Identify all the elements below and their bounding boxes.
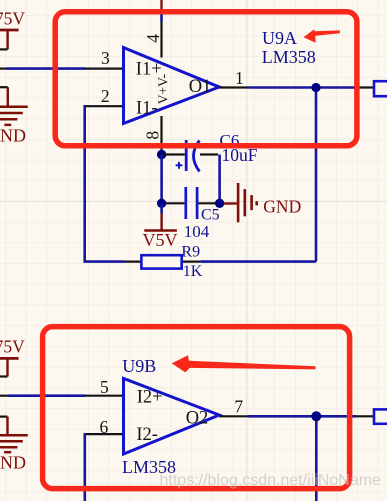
wire right vertical C6-C5 — [218, 155, 221, 204]
wire pin8 node down to C5 row — [160, 155, 163, 204]
wire to port (bottom right) — [357, 415, 375, 417]
red annotation rectangle U9B — [43, 327, 350, 489]
svg-text:I1-: I1- — [136, 99, 158, 119]
svg-text:V5V: V5V — [143, 230, 178, 250]
pin 8 wire below op-amp — [160, 116, 162, 154]
svg-text:2: 2 — [101, 86, 110, 106]
svg-text:I2-: I2- — [136, 425, 158, 445]
pin 4 wire above op-amp — [160, 0, 162, 58]
svg-text:U9A: U9A — [262, 28, 297, 48]
wire C5 right — [199, 202, 220, 204]
svg-text:O2: O2 — [186, 408, 209, 428]
svg-text:https://blog.csdn.net/iiiNoNam: https://blog.csdn.net/iiiNoName — [160, 472, 382, 489]
svg-text:V75V: V75V — [0, 337, 25, 357]
resistor R9 body — [141, 255, 181, 268]
svg-text:1K: 1K — [183, 263, 203, 280]
pin stub at bottom V75V — [0, 375, 8, 377]
svg-text:LM358: LM358 — [262, 47, 316, 67]
svg-text:C5: C5 — [201, 206, 220, 223]
capacitor C6 (polarized) — [176, 140, 200, 172]
wire input to pin 3 — [0, 67, 86, 69]
wire input to pin 5 — [0, 395, 85, 397]
pin 5 (black stub) — [85, 395, 124, 397]
svg-text:104: 104 — [184, 222, 210, 241]
ground GND (right of C5) — [224, 183, 301, 222]
svg-text:U9B: U9B — [122, 356, 156, 376]
svg-text:3: 3 — [101, 48, 110, 68]
resistor R9 wires — [125, 261, 142, 263]
svg-text:O1: O1 — [189, 77, 212, 97]
pin 3 (black stub) — [85, 67, 124, 69]
svg-text:5: 5 — [100, 377, 109, 397]
red annotation rectangle U9A — [55, 12, 357, 146]
pin 6 (black stub) — [85, 433, 124, 435]
svg-text:7: 7 — [234, 396, 243, 416]
wire from pin 6 down off-screen — [84, 433, 87, 501]
power port V75V (top left) — [0, 9, 25, 50]
wire C5 left — [162, 202, 185, 204]
capacitor C5 — [186, 187, 197, 219]
wire C6 right — [200, 153, 218, 155]
wire output U9B to right — [248, 415, 357, 418]
svg-text:I2+: I2+ — [137, 388, 163, 408]
junction C5 left — [157, 199, 166, 208]
pin stub to off-screen component at V75V — [0, 48, 8, 50]
svg-text:GND: GND — [263, 196, 301, 216]
power port V75V (bottom left) — [0, 337, 25, 377]
op-amp U9B triangle — [124, 378, 220, 454]
power port V5V — [143, 203, 178, 250]
output pin 1 — [219, 86, 248, 88]
node at pin8 / C6 — [157, 150, 166, 159]
svg-text:4: 4 — [143, 34, 163, 43]
red arrow annotation (top) — [304, 29, 341, 43]
svg-text:1: 1 — [235, 68, 244, 88]
port square top right — [374, 81, 387, 96]
port square bottom right — [374, 409, 387, 423]
svg-text:V75V: V75V — [0, 9, 25, 29]
red arrow annotation (bottom) — [172, 355, 316, 372]
svg-text:8: 8 — [142, 131, 162, 140]
pin 2 (black stub) — [85, 105, 124, 107]
op-amp U9A triangle — [124, 48, 220, 124]
junction output U9B — [311, 411, 321, 421]
ground GND (top left) — [0, 87, 28, 145]
output pin 7 — [219, 415, 248, 417]
svg-text:6: 6 — [100, 417, 109, 437]
ground GND (bottom left) — [0, 417, 28, 473]
feedback wire from pin 2 down to R9 row — [85, 105, 125, 262]
wire output down to feedback — [315, 88, 318, 262]
wire C6 left — [162, 153, 185, 155]
svg-text:GND: GND — [0, 452, 26, 472]
wire to port (top right) — [357, 86, 375, 88]
svg-text:GND: GND — [0, 126, 26, 146]
wire output U9B down off-screen — [315, 416, 318, 501]
junction output U9A — [311, 83, 320, 92]
svg-text:V+V-: V+V- — [156, 73, 171, 104]
wire output to right — [249, 86, 357, 89]
junction C5 right — [215, 199, 224, 208]
svg-text:R9: R9 — [181, 244, 200, 261]
